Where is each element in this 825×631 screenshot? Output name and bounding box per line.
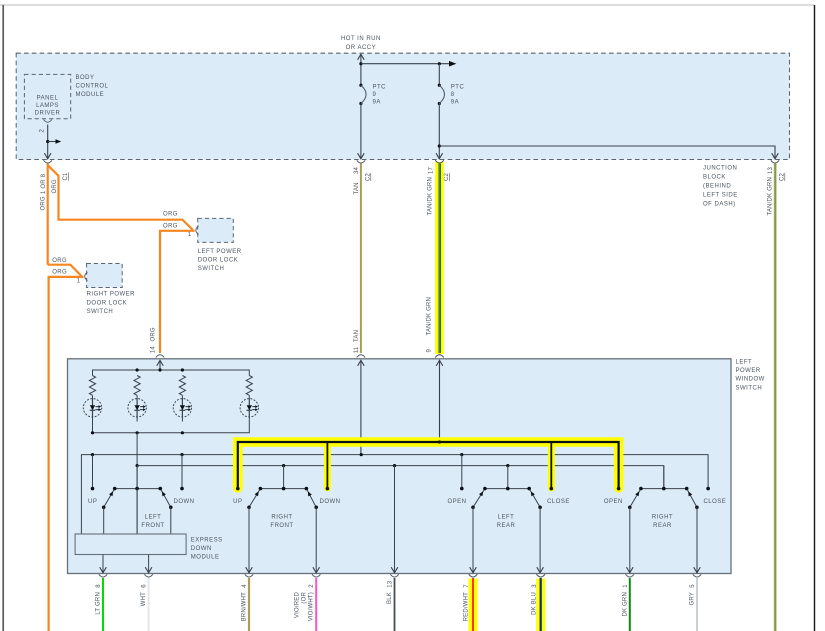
page frame top border [0, 4, 815, 6]
svg-text:8: 8 [96, 584, 102, 588]
window switch pin 13 connector [390, 574, 398, 577]
svg-text:PTC: PTC [373, 85, 387, 91]
svg-text:1: 1 [188, 232, 192, 238]
illumination top bus [93, 370, 250, 376]
PTC 8 circuit breaker [438, 64, 440, 85]
window switch pin 2 connector [312, 574, 320, 577]
svg-text:OPEN: OPEN [447, 499, 466, 505]
svg-text:TAN/DK GRN: TAN/DK GRN [428, 177, 434, 216]
svg-text:CLOSE: CLOSE [703, 499, 726, 505]
node hot feed [359, 62, 362, 65]
node PTC 8 top [438, 62, 441, 65]
svg-text:34: 34 [354, 166, 360, 174]
illumination LED D3 [173, 399, 191, 417]
svg-text:SWITCH: SWITCH [87, 309, 114, 315]
illumination LED D4 [240, 399, 258, 417]
svg-text:LEFT: LEFT [498, 514, 515, 520]
left front window switch [92, 455, 94, 489]
window switch pin 6 connector [144, 574, 152, 577]
svg-text:BLOCK: BLOCK [703, 174, 726, 180]
node bus1 [180, 453, 183, 456]
right power door lock switch [87, 264, 123, 288]
svg-text:BODY: BODY [76, 75, 95, 81]
wire PTC 8 output to junction block pin 13 [439, 146, 775, 159]
svg-text:(OR: (OR [302, 592, 308, 604]
svg-text:9A: 9A [451, 100, 459, 106]
svg-text:1: 1 [623, 584, 629, 588]
svg-text:2: 2 [309, 584, 315, 588]
wire GRY [696, 578, 698, 631]
svg-text:OF DASH): OF DASH) [703, 201, 736, 207]
left rear window switch [461, 455, 463, 489]
svg-text:FRONT: FRONT [270, 523, 293, 529]
wire PTC 8 to junction block pin 17 [438, 104, 440, 159]
svg-text:CONTROL: CONTROL [76, 83, 109, 89]
wire BRN/WHT [248, 578, 250, 631]
wire TAN/DK GRN highlighted from pin 17 to window switch pin 9 [435, 162, 444, 354]
wire ORG from left door lock switch to window switch pin 14 [160, 231, 195, 353]
svg-text:REAR: REAR [653, 523, 672, 529]
svg-text:POWER: POWER [736, 368, 761, 374]
wire ORG from BCM pin down left side [47, 164, 49, 265]
wire from panel lamps driver pin 2 to junction block border [47, 125, 49, 159]
svg-text:FRONT: FRONT [141, 523, 164, 529]
illumination resistor R2 [134, 376, 140, 396]
window switch pin 8 connector [99, 574, 107, 577]
bus 1 (pin 11 feed) [81, 455, 708, 534]
svg-text:TAN: TAN [354, 330, 360, 342]
svg-text:UP: UP [88, 499, 97, 505]
express down module [75, 534, 186, 555]
svg-text:17: 17 [429, 166, 435, 174]
wire TAN/DK GRN from junction block pin 13 down page [774, 164, 776, 631]
svg-text:PANEL: PANEL [37, 95, 59, 101]
right rear window switch [663, 466, 665, 489]
svg-text:REAR: REAR [497, 523, 516, 529]
svg-text:TAN/DK GRN: TAN/DK GRN [427, 297, 433, 336]
left power window switch box [68, 359, 732, 574]
illumination resistor R4 [246, 376, 252, 396]
svg-text:RIGHT: RIGHT [652, 514, 673, 520]
svg-text:DOWN: DOWN [320, 499, 341, 505]
svg-text:RIGHT POWER: RIGHT POWER [87, 292, 136, 298]
svg-text:C1: C1 [63, 172, 69, 181]
svg-text:9: 9 [427, 349, 433, 353]
panel lamps driver box [24, 74, 70, 118]
wire LT GRN [102, 578, 104, 631]
wire RED/WHT highlighted [469, 579, 478, 631]
hot feed wire with up arrow at HOT IN RUN [360, 54, 362, 85]
svg-text:2: 2 [40, 129, 46, 133]
svg-text:MODULE: MODULE [76, 92, 105, 98]
illumination resistor R1 [89, 376, 95, 396]
svg-text:EXPRESS: EXPRESS [191, 538, 223, 544]
node bus1 [91, 453, 94, 456]
highlighted power bus (yellow) [238, 442, 619, 488]
svg-text:11: 11 [354, 346, 360, 353]
svg-text:WINDOW: WINDOW [736, 377, 765, 383]
svg-text:BRN/WHT: BRN/WHT [242, 592, 248, 622]
connector C2 pin 13 [771, 160, 779, 163]
window switch pin 1 connector [626, 574, 634, 577]
page frame right border [814, 5, 816, 631]
svg-text:ORG: ORG [151, 327, 157, 341]
svg-text:PTC: PTC [451, 85, 465, 91]
wire right front up pivot to pin 4 [248, 507, 250, 573]
svg-text:ORG: ORG [52, 179, 58, 193]
svg-text:MODULE: MODULE [191, 555, 220, 561]
svg-text:14: 14 [151, 346, 157, 354]
svg-text:SWITCH: SWITCH [736, 385, 763, 391]
svg-text:UP: UP [233, 499, 242, 505]
connector C2 pin 34 [357, 160, 365, 163]
svg-text:C2: C2 [366, 172, 372, 181]
svg-text:C2: C2 [444, 172, 450, 181]
illumination LED D2 [128, 399, 146, 417]
svg-text:ORG: ORG [52, 258, 67, 264]
svg-text:LEFT SIDE: LEFT SIDE [703, 192, 738, 198]
wire ORG branch to left power door lock switch [48, 165, 193, 230]
svg-text:DOOR LOCK: DOOR LOCK [198, 257, 239, 263]
pin 11 entry arrow + wire to bus [358, 360, 365, 366]
svg-text:LEFT: LEFT [736, 360, 753, 366]
svg-text:TAN/DK GRN: TAN/DK GRN [768, 177, 774, 216]
svg-text:JUNCTION: JUNCTION [703, 165, 737, 171]
svg-text:DOOR LOCK: DOOR LOCK [87, 300, 128, 306]
wire BLK ground from bus2 to pin 13 [394, 466, 396, 573]
svg-text:LEFT POWER: LEFT POWER [198, 249, 242, 255]
svg-text:LT GRN: LT GRN [96, 592, 102, 615]
wire right rear close pivot to pin 5 [696, 507, 698, 573]
node PTC 8 output [438, 144, 441, 147]
svg-text:ORG: ORG [41, 196, 47, 210]
svg-text:RIGHT: RIGHT [271, 514, 292, 520]
PTC 9 circuit breaker [359, 84, 362, 87]
wire right rear open pivot to pin 1 [629, 507, 631, 573]
svg-text:5: 5 [690, 584, 696, 588]
wire DK GRN [629, 578, 631, 631]
left power door lock switch [198, 218, 234, 242]
illumination bottom bus [93, 422, 250, 433]
right front window switch [283, 466, 285, 489]
svg-text:TAN: TAN [354, 182, 360, 194]
svg-text:VIO/RED: VIO/RED [294, 592, 300, 619]
svg-text:SWITCH: SWITCH [198, 266, 225, 272]
node bus1 [360, 453, 363, 456]
connector C2 pin 17 [435, 160, 443, 163]
wire left rear close pivot to pin 3 [539, 507, 541, 573]
node on panel lamps wire [46, 140, 49, 143]
svg-text:BLK: BLK [387, 592, 393, 604]
branch arrow to other circuits [48, 141, 56, 143]
wire LED network to lower bus and left front switch center [136, 433, 138, 534]
panel lamps driver pin 2 connector [44, 120, 52, 123]
connector C1 pin 1 OR 8 (BCM output) [44, 160, 52, 163]
svg-text:9: 9 [373, 92, 377, 98]
window switch pin 14 connector [156, 355, 164, 358]
left front pivot wires into express module [103, 507, 105, 534]
svg-text:DRIVER: DRIVER [35, 111, 61, 117]
wire VIO/RED [315, 578, 317, 631]
node bus2 feed [136, 464, 139, 467]
svg-text:6: 6 [142, 584, 148, 588]
wire BLK [394, 578, 396, 631]
svg-text:9A: 9A [373, 100, 381, 106]
svg-text:1 OR 8: 1 OR 8 [41, 173, 47, 194]
wire DK BLU highlighted [536, 579, 545, 631]
junction block / body control module dashed box [16, 53, 789, 159]
node bus2 [506, 464, 509, 467]
svg-text:DK GRN: DK GRN [622, 592, 628, 617]
svg-text:CLOSE: CLOSE [547, 499, 570, 505]
bus 2 (illumination/ground) [137, 466, 664, 488]
window switch pin 9 connector [435, 355, 443, 358]
express module output to pin 8 [102, 555, 104, 573]
window switch pin 3 connector [537, 574, 545, 577]
svg-text:HOT IN RUN: HOT IN RUN [341, 36, 381, 42]
svg-text:LAMPS: LAMPS [36, 103, 59, 109]
horizontal feed bus to PTC 8 and beyond [361, 63, 449, 65]
svg-text:ORG: ORG [163, 223, 178, 229]
pin 14 entry arrow [157, 360, 164, 366]
svg-text:GRY: GRY [690, 592, 696, 606]
svg-text:1: 1 [77, 278, 81, 284]
svg-text:OPEN: OPEN [604, 499, 623, 505]
svg-text:DOWN: DOWN [191, 546, 212, 552]
window switch pin 4 connector [245, 574, 253, 577]
page frame left border [2, 5, 4, 631]
illumination resistor R3 [179, 376, 185, 396]
window switch pin 7 connector [469, 574, 477, 577]
svg-text:C2: C2 [780, 172, 786, 181]
wire ORG continuing down page [49, 277, 84, 631]
svg-text:8: 8 [451, 92, 455, 98]
svg-text:13: 13 [768, 166, 774, 174]
svg-text:4: 4 [242, 584, 248, 588]
wire ORG fork to right power door lock switch [48, 265, 82, 276]
svg-text:(BEHIND: (BEHIND [703, 183, 731, 189]
svg-text:13: 13 [388, 580, 394, 588]
illumination LED D1 [83, 399, 101, 417]
svg-text:WHT: WHT [141, 592, 147, 606]
svg-text:OR ACCY: OR ACCY [346, 45, 377, 51]
window switch pin 11 connector [357, 355, 365, 358]
node bus2 [282, 464, 285, 467]
wire PTC 9 to junction block pin 34 [360, 104, 362, 159]
wire WHT [148, 578, 150, 631]
wire right front down pivot to pin 2 [315, 507, 317, 573]
svg-text:ORG: ORG [52, 270, 67, 276]
connector arc overlays (drawn above highlights) [435, 160, 443, 163]
svg-text:ORG: ORG [163, 212, 178, 218]
window switch pin 5 connector [693, 574, 701, 577]
node power bus / pin 9 [438, 440, 441, 443]
svg-text:DOWN: DOWN [174, 499, 195, 505]
svg-text:VIO/WHT): VIO/WHT) [309, 592, 315, 621]
node bus1 [460, 453, 463, 456]
pin 9 entry arrow + wire to power bus [436, 360, 443, 366]
svg-text:LEFT: LEFT [145, 514, 162, 520]
node bus2 [393, 464, 396, 467]
express module output to pin 6 [148, 555, 150, 573]
wire left rear open pivot to pin 7 [472, 507, 474, 573]
wire TAN from pin 34 to window switch pin 11 [360, 164, 362, 354]
